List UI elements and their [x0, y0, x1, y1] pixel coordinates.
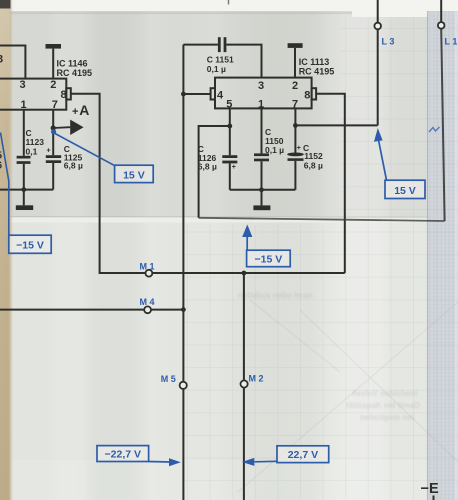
svg-text:15 V: 15 V	[394, 185, 416, 197]
svg-text:L 1: L 1	[445, 37, 458, 47]
wire pin8 U1 to M1	[71, 94, 146, 273]
wire pin7 junction to L3	[295, 124, 377, 126]
junction dot pin7/+A	[51, 125, 56, 130]
label +A	[72, 102, 89, 118]
junction dot pin7/L3	[293, 123, 298, 128]
wire pin1 U2 down	[261, 108, 263, 153]
M1 bus wire	[100, 272, 345, 274]
label box 15V right with arrow to L3 junction	[374, 128, 425, 199]
svg-text:6,8 µ: 6,8 µ	[198, 162, 217, 172]
label C1151	[207, 55, 234, 74]
bleed-through text blobs	[238, 291, 420, 422]
signal arrow +A	[70, 120, 83, 135]
svg-text:+: +	[47, 148, 51, 155]
svg-text:netlahcs nebo hcan: netlahcs nebo hcan	[238, 291, 313, 300]
blue dot and leader to 15V label	[51, 129, 56, 134]
dark corner	[0, 0, 11, 9]
label C1152	[303, 143, 323, 171]
junction dot pin5	[227, 124, 232, 129]
svg-text:2: 2	[292, 80, 298, 92]
capacitor C1151	[218, 37, 227, 52]
label C1123	[26, 128, 45, 157]
op-amp regulator U1 IC1146 box	[0, 79, 71, 110]
svg-text:M 4: M 4	[140, 297, 155, 307]
bleed-through diagonals	[238, 300, 458, 492]
wire pin5 junction to -15V bus	[199, 126, 230, 218]
svg-text:0,1: 0,1	[26, 147, 38, 157]
ground symbol top (pin 2 of U1)	[46, 44, 62, 79]
M4 wire	[0, 309, 183, 311]
label box -15V left	[9, 235, 51, 253]
svg-text:nehcilgom nei: nehcilgom nei	[360, 413, 414, 422]
wire pin7 U2 down	[294, 108, 296, 152]
faint big grid bleed-through	[185, 225, 458, 500]
svg-text:15 V: 15 V	[123, 169, 145, 181]
terminal M5	[180, 382, 187, 389]
ground rail left	[0, 189, 53, 191]
svg-text:0,1 µ: 0,1 µ	[207, 64, 226, 74]
junction dot M4/M5 wire	[181, 307, 186, 312]
arrow fragment below -E	[433, 496, 435, 500]
svg-text:−15 V: −15 V	[255, 254, 283, 266]
svg-text:3: 3	[0, 54, 3, 66]
svg-text:tätizapaK eid timaD: tätizapaK eid timaD	[346, 401, 420, 410]
junction dot rail middle	[259, 187, 264, 192]
wire to pin 3 of U1	[0, 46, 25, 79]
terminal M2	[241, 380, 248, 387]
junction dot rail	[21, 187, 26, 192]
M5 vertical wire	[182, 45, 184, 500]
label IC 1113 RC 4195	[299, 57, 335, 76]
svg-text:6,8 µ: 6,8 µ	[304, 161, 323, 171]
svg-text:3: 3	[258, 80, 264, 92]
terminal L1 wire	[440, 0, 442, 22]
svg-text:+: +	[72, 106, 78, 118]
svg-text:6,8 µ: 6,8 µ	[64, 160, 83, 170]
M2 vertical wire	[243, 273, 245, 500]
svg-text:8: 8	[61, 89, 67, 101]
svg-text:4: 4	[217, 89, 224, 101]
label C1125	[64, 144, 83, 171]
capacitor C1125 (electrolytic)	[46, 155, 61, 163]
label box -15V middle with up arrow	[242, 225, 290, 267]
tick mark top edge	[228, 0, 230, 5]
wire C1151 to pin3 U2	[226, 45, 261, 78]
capacitor C1150	[254, 153, 269, 161]
svg-text:M 5: M 5	[161, 374, 176, 384]
left beige strip	[0, 0, 13, 500]
svg-text:ilexloV nebicheni: ilexloV nebicheni	[352, 389, 417, 398]
capacitor C1152 (electrolytic)	[287, 153, 304, 161]
ground symbol bottom left	[16, 190, 33, 210]
svg-text:3: 3	[20, 79, 26, 91]
ground symbol top (pin 2 of U2)	[288, 43, 303, 77]
svg-text:+: +	[232, 164, 236, 171]
label box 22,7V with arrow to M2 wire	[242, 446, 329, 466]
label box -22,7V with arrow to M5 wire	[97, 446, 181, 467]
svg-text:0,1 µ: 0,1 µ	[265, 145, 284, 155]
svg-text:2: 2	[50, 79, 56, 91]
svg-text:7: 7	[52, 99, 58, 111]
svg-text:RC 4195: RC 4195	[57, 68, 93, 78]
wire pin4 U2 left	[183, 93, 210, 95]
label box 15V left	[115, 165, 154, 182]
svg-text:1152: 1152	[304, 151, 323, 161]
svg-text:M 2: M 2	[249, 373, 264, 383]
crease	[0, 217, 458, 223]
label C1126	[198, 144, 217, 172]
svg-text:RC 4195: RC 4195	[299, 66, 335, 76]
wire to +A arrow	[53, 126, 70, 129]
wire pin1 U1 down	[23, 110, 25, 156]
terminal L3 wire	[377, 0, 379, 23]
junction dot M1 bus / M2 wire	[242, 271, 247, 276]
junction dot pin4/M5	[181, 92, 186, 97]
wire pin5 U2 down	[229, 108, 231, 155]
svg-text:−E: −E	[421, 481, 439, 497]
ground symbol bottom middle	[253, 190, 270, 210]
blue leader line to -15V label	[1, 133, 9, 236]
label IC 1146 RC 4195	[57, 59, 93, 78]
svg-text:A: A	[79, 102, 89, 118]
label C1150	[265, 127, 284, 155]
wire pin7 U1 down	[52, 110, 54, 156]
svg-text:8: 8	[304, 89, 310, 101]
capacitor C1123	[17, 156, 31, 164]
capacitor C1126 (electrolytic)	[222, 155, 237, 163]
svg-text:1: 1	[21, 99, 27, 111]
right blue band	[428, 11, 458, 500]
-15V bus wire along crease	[199, 218, 445, 221]
regulator U2 IC1113 box	[211, 78, 317, 109]
svg-text:M 1: M 1	[140, 261, 155, 271]
wire pin8 U2 right and down to M1 bus	[316, 94, 345, 273]
terminal M4	[144, 306, 151, 313]
blue pen mark right edge	[429, 127, 440, 132]
svg-text:L 3: L 3	[382, 37, 395, 47]
terminal M1	[146, 270, 153, 277]
ground rail middle	[230, 189, 296, 191]
svg-text:−15 V: −15 V	[16, 240, 44, 252]
wire C1151 top left	[183, 44, 218, 46]
svg-text:22,7 V: 22,7 V	[288, 449, 318, 461]
svg-text:−22,7 V: −22,7 V	[105, 449, 142, 461]
svg-text:+: +	[297, 145, 301, 152]
